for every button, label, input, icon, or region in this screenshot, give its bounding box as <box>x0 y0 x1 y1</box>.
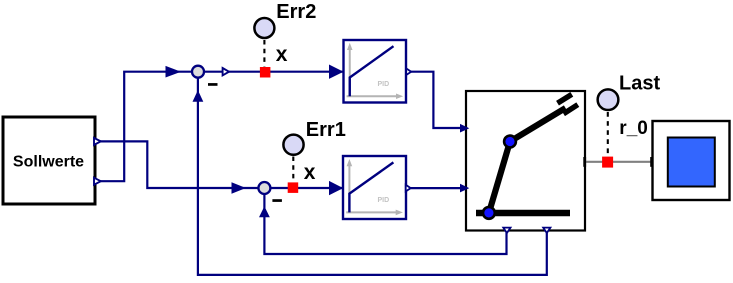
sum junction 2 (feedback circle) <box>258 182 270 194</box>
load block frame <box>653 121 730 200</box>
sum junction 1 (feedback circle) <box>192 66 204 78</box>
dashed link Last bubble to tap <box>607 112 609 156</box>
svg-text:PID: PID <box>377 197 389 204</box>
sensor bubble Err1 <box>283 135 303 155</box>
arrow into PID1 <box>329 65 344 79</box>
switch lever upper segment <box>510 108 566 142</box>
wire feedback from switch bottom port2 to sum1 <box>198 77 547 275</box>
wire sum1 to PID1 <box>203 71 343 73</box>
wire PID1 to switch input1 <box>411 72 467 128</box>
arrow into sum2 from left <box>232 182 246 194</box>
PID2 x-axis (gray) <box>346 211 396 213</box>
connector PID2 output (hollow triangle) <box>406 185 411 192</box>
wire PID2 to switch input2 <box>411 187 469 189</box>
arrow into switch input2 <box>460 184 469 193</box>
arrow into PID2 <box>329 181 343 195</box>
wire feedback from switch bottom port1 to sum2 <box>264 193 506 254</box>
switch bottom bar <box>476 210 570 217</box>
minus sign of sum2 <box>272 199 282 202</box>
PID block 2 <box>343 156 406 219</box>
connector red square Last tap (r_0) <box>602 157 613 168</box>
dashed link Err2 bubble to tap <box>263 40 265 67</box>
connector Sollwerte.out1 (hollow triangle) <box>94 138 101 145</box>
PID2 y-axis (gray) <box>348 165 350 212</box>
svg-text:Last: Last <box>619 73 660 95</box>
switch handle prong 2 <box>564 105 578 114</box>
arrow into sum2 from below (feedback) <box>259 206 270 217</box>
wire flange switch to load (gray) <box>585 161 652 163</box>
PID1 x-axis (gray) <box>347 95 397 97</box>
connector red square Err1 tap <box>288 182 299 193</box>
switch pivot dot lower (blue) <box>483 207 495 219</box>
connector switch bottom port1 (hollow triangle) <box>503 228 510 233</box>
block Sollwerte <box>3 117 95 204</box>
PID2 response curve <box>349 162 393 212</box>
connector switch bottom port2 (hollow triangle) <box>543 228 550 233</box>
svg-text:Sollwerte: Sollwerte <box>13 154 84 171</box>
PID1 response curve <box>350 46 394 96</box>
flange tick at switch side <box>583 157 586 167</box>
connector red square Err2 tap <box>260 67 271 78</box>
switch pivot dot upper (blue) <box>504 136 516 148</box>
arrow into switch input1 <box>460 124 469 133</box>
PID1 y-axis (gray) <box>349 49 351 96</box>
svg-text:Err1: Err1 <box>306 119 346 141</box>
svg-text:Err2: Err2 <box>276 1 316 23</box>
flange tick at load side <box>650 157 653 167</box>
load block inner blue square <box>668 138 715 187</box>
wire Sollwerte.out2 to sum1 (crossing up) <box>96 72 193 182</box>
wire Sollwerte.out1 to sum2 (crossing down) <box>96 141 260 188</box>
arrow into sum1 from below (feedback) <box>193 90 204 102</box>
arrow into sum1 from left <box>166 66 182 78</box>
sensor bubble Err2 <box>254 18 274 38</box>
sensor bubble Last <box>598 89 619 110</box>
svg-text:PID: PID <box>377 81 389 88</box>
svg-text:x: x <box>304 161 316 184</box>
switch block frame <box>466 91 585 231</box>
wire sum2 to PID2 <box>270 187 343 189</box>
connector sum1 output (hollow triangle) <box>223 68 229 75</box>
connector Sollwerte.out2 (hollow triangle) <box>94 178 101 185</box>
switch lever lower segment <box>489 142 510 213</box>
svg-text:x: x <box>276 43 288 66</box>
PID block 1 <box>344 40 407 103</box>
svg-text:r_0: r_0 <box>619 118 648 139</box>
minus sign of sum1 <box>208 83 218 86</box>
dashed link Err1 bubble to tap <box>292 157 294 183</box>
switch handle prong 1 <box>558 94 572 103</box>
connector PID1 output (hollow triangle) <box>406 68 411 75</box>
